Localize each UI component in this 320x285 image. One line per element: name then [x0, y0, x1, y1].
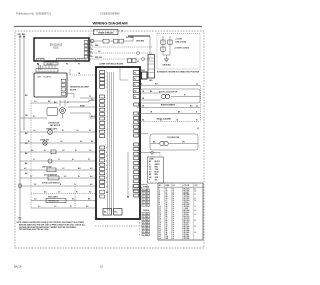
- svg-text:1.4: 1.4: [89, 149, 91, 152]
- svg-text:18: 18: [173, 214, 175, 216]
- svg-text:1.4: 1.4: [60, 140, 62, 143]
- svg-text:18: 18: [173, 190, 175, 192]
- svg-text:DOOR SW: DOOR SW: [135, 188, 143, 190]
- main control board U1: [34, 38, 89, 61]
- svg-text:BROIL ELEMENT: BROIL ELEMENT: [157, 119, 173, 121]
- wire color legend box: [148, 157, 164, 183]
- svg-text:BAKE ELEMENT: BAKE ELEMENT: [161, 104, 176, 107]
- svg-text:2.2: 2.2: [34, 184, 36, 186]
- relay board right pin strip J5: [133, 71, 139, 198]
- svg-text:10B: 10B: [166, 238, 169, 240]
- svg-text:+ DOOR: + DOOR: [175, 39, 183, 41]
- svg-text:18: 18: [173, 204, 175, 206]
- relay board lower-left pin labels: [100, 191, 109, 199]
- relay K1: [103, 209, 112, 216]
- wire dashed row 1 to door lock: [90, 45, 153, 47]
- wire L1 row y85: [137, 83, 200, 86]
- door lock switch S4: [168, 36, 172, 55]
- svg-text:L2: L2: [195, 200, 197, 202]
- svg-text:WHITE: WHITE: [155, 164, 160, 166]
- svg-text:W-1088: W-1088: [184, 234, 189, 236]
- current transformer CT1: [137, 132, 148, 134]
- svg-text:BK/W: BK/W: [80, 105, 85, 107]
- relay board internal wires: [108, 67, 129, 214]
- svg-text:11: 11: [159, 208, 161, 210]
- chassis ground symbol: [163, 59, 172, 67]
- svg-text:L2: L2: [196, 106, 198, 108]
- wire L1 feeder: [128, 36, 150, 41]
- broil element R2: [137, 119, 200, 122]
- svg-text:1.8: 1.8: [34, 101, 36, 103]
- svg-text:SCHEMATIC SHOWN IN CONNECTED P: SCHEMATIC SHOWN IN CONNECTED POSITION: [157, 70, 200, 73]
- svg-text:L1: L1: [195, 210, 197, 212]
- svg-text:P.2: P.2: [89, 96, 91, 98]
- svg-text:25: 25: [159, 236, 161, 238]
- thermal fuse F1: [94, 39, 109, 43]
- svg-text:EOC: EOC: [53, 47, 58, 50]
- svg-text:BK-1090: BK-1090: [184, 236, 190, 238]
- svg-text:18: 18: [173, 198, 175, 200]
- connector stack A pin grid: [139, 189, 150, 207]
- svg-text:4.5: 4.5: [80, 140, 82, 143]
- svg-text:4.4: 4.4: [44, 191, 46, 194]
- svg-text:RD-1076: RD-1076: [184, 222, 190, 224]
- svg-text:W-1056: W-1056: [184, 202, 189, 204]
- svg-text:CONN B: CONN B: [143, 210, 150, 212]
- svg-text:10: 10: [106, 186, 108, 188]
- svg-text:K1: K1: [134, 73, 136, 75]
- svg-text:20: 20: [159, 226, 161, 228]
- display board U2: [34, 73, 67, 97]
- svg-text:BK-1058: BK-1058: [184, 204, 190, 206]
- svg-text:Y: Y: [149, 179, 150, 181]
- svg-text:OR-1072: OR-1072: [184, 218, 190, 220]
- left rail labels GR BK: [18, 34, 26, 36]
- svg-text:YEL: YEL: [155, 179, 158, 181]
- svg-text:16: 16: [173, 212, 175, 214]
- svg-text:3B: 3B: [166, 206, 168, 208]
- door lock motor assembly M1: [140, 89, 200, 103]
- door lock switch S3: [161, 36, 165, 55]
- latch switch row: [20, 158, 96, 163]
- oven light assembly B2: [20, 129, 96, 135]
- wire row y170: [20, 166, 96, 172]
- svg-text:P.4: P.4: [91, 98, 93, 101]
- svg-text:2.2: 2.2: [64, 176, 66, 178]
- svg-text:23: 23: [159, 232, 161, 234]
- node L1 label: [121, 30, 124, 32]
- svg-text:18: 18: [173, 232, 175, 234]
- svg-text:1.4: 1.4: [33, 129, 35, 132]
- right bus wire: [200, 86, 202, 122]
- connector pin labels below main board: [37, 63, 80, 66]
- svg-text:OR-1092: OR-1092: [184, 238, 190, 240]
- svg-text:4.1: 4.1: [72, 158, 74, 161]
- svg-text:OVEN CIRCUIT: OVEN CIRCUIT: [98, 33, 114, 35]
- svg-text:RD-1086: RD-1086: [184, 232, 190, 234]
- main board bottom connector J2: [57, 58, 76, 61]
- door lock connector J6: [148, 55, 155, 83]
- svg-text:MDL SW: MDL SW: [95, 57, 102, 59]
- wire drop x160: [152, 153, 160, 185]
- svg-text:6B: 6B: [166, 222, 168, 224]
- schematic caption: [157, 70, 200, 73]
- svg-text:15: 15: [159, 216, 161, 218]
- meat probe jack row: [31, 191, 96, 194]
- svg-text:+ DOOR LOCKED: + DOOR LOCKED: [174, 48, 190, 50]
- bake element R1: [137, 104, 200, 108]
- wiring chart table: [158, 183, 203, 240]
- svg-text:N: N: [195, 214, 196, 216]
- svg-text:18: 18: [173, 188, 175, 190]
- wire vertical dashed x75: [74, 186, 76, 208]
- svg-text:1.6: 1.6: [54, 206, 56, 208]
- svg-text:18: 18: [173, 236, 175, 238]
- svg-text:2D: 2D: [166, 202, 168, 204]
- door lock schematic dashed box: [157, 34, 200, 70]
- terminal block TB1: [109, 39, 133, 43]
- svg-text:L1: L1: [195, 220, 197, 222]
- probe receptacle row: [20, 149, 96, 154]
- svg-text:SYSTEM: SYSTEM: [126, 37, 134, 39]
- svg-text:W-1068: W-1068: [184, 214, 189, 216]
- svg-text:P6: P6: [66, 64, 68, 66]
- svg-text:1.5: 1.5: [58, 192, 60, 194]
- wire display board pin y94: [66, 94, 74, 98]
- svg-text:F1: F1: [137, 61, 139, 63]
- svg-text:2.4: 2.4: [31, 149, 33, 152]
- svg-text:18: 18: [159, 222, 161, 224]
- svg-text:18: 18: [173, 218, 175, 220]
- svg-text:9B: 9B: [166, 234, 168, 236]
- svg-text:K3: K3: [134, 85, 136, 87]
- svg-text:WIRING DIAGRAM: WIRING DIAGRAM: [92, 21, 128, 26]
- svg-text:8B: 8B: [166, 230, 168, 232]
- lamp switch S1 row: [20, 140, 96, 146]
- wire switch merge: [163, 55, 170, 59]
- svg-text:4.3: 4.3: [90, 167, 92, 170]
- svg-text:DOOR LIGHT SWITCH: DOOR LIGHT SWITCH: [42, 182, 60, 184]
- svg-text:18: 18: [173, 238, 175, 240]
- svg-text:COOLING FAN: COOLING FAN: [167, 136, 180, 139]
- label tangential fan: [70, 86, 89, 92]
- svg-text:GROUND: GROUND: [136, 41, 145, 43]
- display board top connector strip: [36, 69, 58, 72]
- svg-text:WIRE: WIRE: [166, 185, 170, 187]
- wire left drop to notes area: [30, 101, 32, 209]
- svg-text:18: 18: [173, 226, 175, 228]
- relay K2: [114, 209, 123, 216]
- wire dashed row 3: [90, 57, 150, 60]
- svg-text:L2: L2: [197, 128, 199, 130]
- svg-text:2.4: 2.4: [34, 198, 36, 201]
- relay board caption: [99, 62, 124, 65]
- wire row y118: [20, 116, 47, 118]
- wire stepped to pin y113: [70, 113, 97, 118]
- notes text block: [17, 221, 86, 231]
- svg-text:W-1078: W-1078: [184, 224, 189, 226]
- wire stepped to pin y107: [68, 105, 96, 107]
- connector stack CN-B label: [143, 210, 150, 212]
- neutral terminal: [90, 39, 94, 43]
- svg-text:18: 18: [173, 230, 175, 232]
- svg-text:18: 18: [173, 196, 175, 198]
- svg-text:1D: 1D: [166, 194, 168, 196]
- svg-text:MDL: MDL: [149, 80, 152, 82]
- svg-text:BOARD: BOARD: [44, 75, 52, 78]
- svg-text:16: 16: [173, 202, 175, 204]
- display board right pins: [61, 79, 66, 95]
- wire row y100: [31, 101, 58, 103]
- svg-text:OR-1050: OR-1050: [184, 196, 190, 198]
- svg-text:BLUE: BLUE: [155, 172, 159, 174]
- wire row y113: [137, 112, 200, 114]
- svg-text:4.8: 4.8: [86, 205, 88, 208]
- svg-text:4.6: 4.6: [72, 198, 74, 201]
- svg-text:13: 13: [159, 212, 161, 214]
- wire arrow drop x128: [127, 152, 129, 199]
- svg-text:7B: 7B: [166, 226, 168, 228]
- svg-text:1.1: 1.1: [33, 159, 35, 161]
- fuse F2 above relay board: [128, 59, 139, 63]
- svg-text:2.8: 2.8: [98, 51, 100, 53]
- footer revision text: [14, 264, 22, 268]
- svg-text:10: 10: [159, 206, 161, 208]
- svg-text:BR-1080: BR-1080: [184, 226, 190, 228]
- svg-text:N: N: [195, 198, 196, 200]
- svg-text:CODE: CODE: [149, 158, 154, 160]
- svg-text:K1: K1: [106, 192, 108, 194]
- svg-text:L2: L2: [196, 84, 198, 86]
- wire left ground rail 1: [19, 36, 21, 219]
- oven relay board U3: [96, 67, 140, 219]
- wire stepped to pin y102: [60, 98, 96, 102]
- svg-text:18: 18: [173, 200, 175, 202]
- oven circuit label: [94, 30, 119, 35]
- wire harness main board to display board: [39, 65, 56, 70]
- wire row y208: [31, 205, 96, 208]
- svg-text:2.3: 2.3: [38, 206, 40, 208]
- relay board lower pin numbers: [106, 148, 108, 189]
- svg-text:L1: L1: [195, 194, 197, 196]
- vertical dashed branch at x90: [89, 33, 91, 65]
- svg-text:BA/16: BA/16: [14, 264, 22, 268]
- svg-text:DOOR LOCK MOTOR: DOOR LOCK MOTOR: [159, 91, 178, 93]
- convection fan motor B1: [47, 100, 69, 127]
- cooling fan motor M2: [150, 134, 198, 150]
- system ground label: [126, 37, 145, 42]
- diagram outer dashed border: [15, 31, 204, 248]
- svg-text:L1: L1: [195, 188, 197, 190]
- ground symbol bottom of left rail: [18, 218, 21, 220]
- svg-text:2B: 2B: [166, 198, 168, 200]
- svg-text:17: 17: [159, 220, 161, 222]
- svg-text:18: 18: [173, 208, 175, 210]
- svg-text:L2: L2: [195, 190, 197, 192]
- wire dashed row 2: [90, 51, 153, 54]
- svg-text:MOTOR: MOTOR: [70, 89, 77, 91]
- svg-text:2C: 2C: [166, 200, 168, 202]
- svg-text:16: 16: [159, 218, 161, 220]
- svg-text:3C: 3C: [166, 208, 168, 210]
- svg-text:12: 12: [159, 210, 161, 212]
- publication number text: [16, 12, 52, 16]
- main board lower connector strip: [37, 62, 58, 66]
- svg-text:N: N: [195, 226, 196, 228]
- svg-text:1.2: 1.2: [74, 184, 76, 186]
- DLB relay K3: [141, 70, 147, 79]
- svg-text:5C: 5C: [166, 218, 168, 220]
- svg-text:1C: 1C: [166, 192, 168, 194]
- svg-text:18: 18: [173, 206, 175, 208]
- svg-text:18: 18: [173, 222, 175, 224]
- model number text: [100, 12, 120, 16]
- svg-text:1B: 1B: [166, 190, 168, 192]
- svg-text:Y-1062: Y-1062: [184, 208, 189, 210]
- svg-text:CKT: CKT: [195, 185, 198, 187]
- svg-text:16: 16: [173, 194, 175, 196]
- svg-text:21: 21: [159, 228, 161, 230]
- junction node at x152 y152: [137, 151, 153, 184]
- svg-text:TANGENTIAL BLOWER: TANGENTIAL BLOWER: [70, 86, 89, 89]
- svg-text:BU-1052: BU-1052: [184, 198, 190, 200]
- svg-text:18: 18: [173, 234, 175, 236]
- svg-text:18: 18: [173, 216, 175, 218]
- svg-text:P7: P7: [78, 64, 80, 66]
- svg-text:18: 18: [173, 224, 175, 226]
- svg-text:16: 16: [173, 192, 175, 194]
- wire feeder from L1 to bus: [149, 36, 151, 55]
- svg-text:26: 26: [159, 238, 161, 240]
- svg-text:5B: 5B: [166, 216, 168, 218]
- main board bottom connector J3: [77, 58, 85, 61]
- svg-text:K5: K5: [134, 97, 136, 99]
- svg-text:GR-1060: GR-1060: [184, 206, 190, 208]
- svg-text:LOWER OVEN RELAY BOARD: LOWER OVEN RELAY BOARD: [99, 62, 124, 65]
- svg-text:Publication No. 5995588731: Publication No. 5995588731: [16, 12, 52, 16]
- svg-text:18: 18: [173, 228, 175, 230]
- svg-text:L2: L2: [195, 232, 197, 234]
- wire dashed under relay board: [95, 225, 142, 227]
- door switch block: [133, 185, 147, 191]
- svg-text:1.8: 1.8: [62, 150, 64, 152]
- svg-text:MDL: MDL: [95, 45, 99, 47]
- svg-text:COLOR: COLOR: [184, 185, 190, 187]
- thermal cutout row: [31, 197, 96, 203]
- main board bottom connector J1: [37, 58, 45, 61]
- door switch S2 row: [20, 174, 96, 180]
- svg-text:BU-1070: BU-1070: [184, 216, 190, 218]
- svg-text:CGEB30S9FB4A: CGEB30S9FB4A: [100, 12, 120, 16]
- title WIRING DIAGRAM: [92, 21, 128, 26]
- svg-text:1.1: 1.1: [58, 159, 60, 161]
- svg-text:4.1: 4.1: [89, 129, 91, 132]
- svg-text:1.3: 1.3: [62, 168, 64, 170]
- relay board left pin strip J4: [100, 71, 107, 188]
- svg-text:4.5: 4.5: [90, 183, 92, 186]
- svg-text:RD-1066: RD-1066: [184, 212, 190, 214]
- svg-text:16: 16: [100, 264, 103, 268]
- left rail top terminals: [19, 36, 25, 38]
- svg-text:1.6: 1.6: [76, 130, 78, 132]
- svg-text:4.2: 4.2: [24, 167, 26, 170]
- svg-text:UIB: UIB: [37, 76, 41, 78]
- svg-text:GROUND: GROUND: [163, 65, 172, 67]
- main board right edge pins P1-P5: [84, 41, 93, 59]
- svg-text:K2: K2: [134, 79, 136, 81]
- svg-text:16: 16: [173, 210, 175, 212]
- svg-text:PER NATIONAL ELECTRICAL CODE.: PER NATIONAL ELECTRICAL CODE.: [19, 228, 50, 231]
- svg-text:18: 18: [173, 220, 175, 222]
- left rail connector marks: [19, 95, 29, 187]
- wire from display board pin to relay pin y98: [80, 96, 96, 98]
- svg-text:22: 22: [159, 230, 161, 232]
- svg-text:4.4: 4.4: [90, 175, 92, 178]
- wire left rail 2: [23, 36, 25, 131]
- footer page number: [100, 264, 103, 268]
- svg-text:FAN MOTOR: FAN MOTOR: [50, 124, 61, 127]
- wire display board dashed to relay y75: [70, 69, 96, 75]
- node L2 label: [197, 128, 199, 130]
- svg-text:19: 19: [159, 224, 161, 226]
- door switch state labels: [174, 39, 190, 50]
- svg-text:| UNLOCKED: | UNLOCKED: [175, 41, 187, 43]
- header rule: [14, 25, 202, 27]
- svg-text:4.6: 4.6: [89, 191, 91, 194]
- svg-text:BK-1082: BK-1082: [184, 228, 190, 230]
- connector stack CN-A label: [143, 186, 150, 189]
- wire row y186: [20, 182, 96, 186]
- connector stack B pin grid: [139, 213, 150, 237]
